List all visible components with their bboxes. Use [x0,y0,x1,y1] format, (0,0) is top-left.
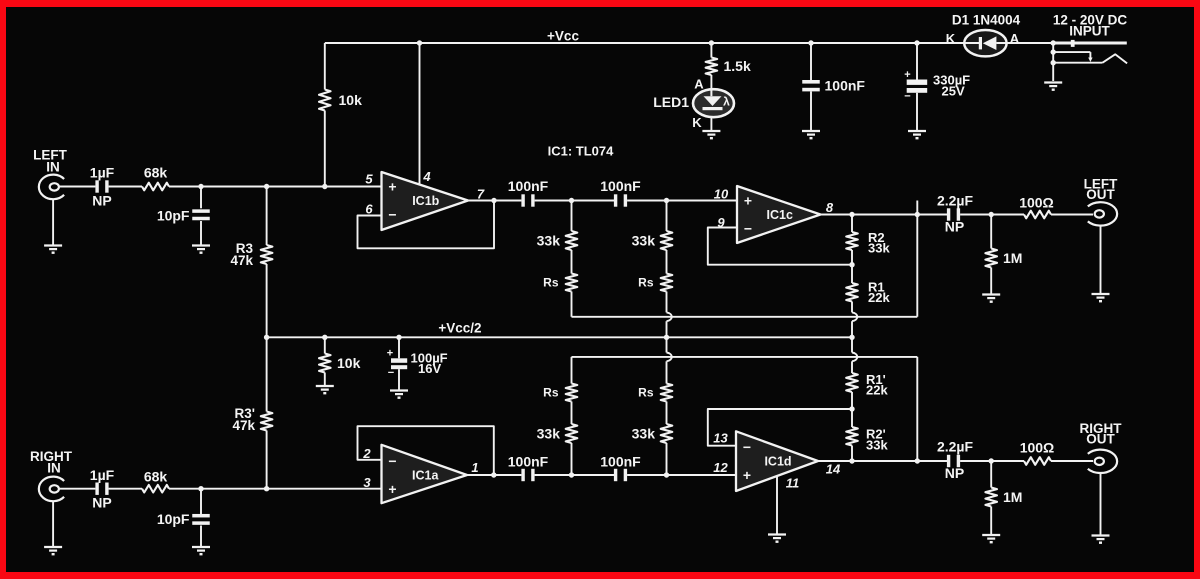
wire hop over line1 (Rcol) [852,312,857,321]
svg-text:7: 7 [477,187,485,202]
wire R2' to output [851,446,853,462]
wire R2 to R1 node [851,250,853,265]
label IN (right) [47,461,61,476]
svg-text:2.2µF: 2.2µF [937,193,974,209]
label R2' [866,427,886,442]
junction 10k bias [322,184,327,189]
pin 11 label [786,476,800,491]
label 33k (R2) [868,241,890,256]
label 100uF [411,350,448,365]
label Rs (top 1) [543,276,559,290]
wire +Vcc/2 rail [267,336,852,338]
wire 2.2uF to 100ohm [960,214,1024,216]
wire 33k-Rs column1 top [571,250,573,274]
ground under 1M top [982,295,1000,302]
svg-text:NP: NP [92,193,111,209]
label R3 [236,241,254,256]
wire LED to ground [710,117,712,131]
wire Rs-33k column1 bottom [571,402,573,425]
svg-text:NP: NP [945,465,964,481]
junction 1.5k rail [709,40,714,45]
wire LEFT IN ground [52,199,54,245]
capacitor 100nF (top 2) [614,194,627,206]
label D1 1N4004 [952,13,1021,28]
wire IC1b feedback [358,201,495,249]
svg-text:2.2µF: 2.2µF [937,439,974,455]
junction 100nF rail [808,40,813,45]
svg-text:33k: 33k [866,438,888,453]
svg-text:−: − [388,367,394,379]
wire LEFT IN to 1uF [59,186,96,188]
resistor 1M (bottom) [985,488,997,507]
label IC1: TL074 [548,144,615,159]
svg-text:100nF: 100nF [508,178,549,194]
label - 100uF [388,367,394,379]
wire +Vcc rail [325,42,1053,44]
wire RIGHT IN to 1uF [59,488,96,490]
svg-text:INPUT: INPUT [1069,24,1110,39]
label NP (right 1uF) [92,495,111,511]
wire 1.5k column [710,43,712,89]
resistor 33k (top 2) [661,231,673,250]
resistor R3' 47k [261,412,273,431]
svg-text:−: − [744,221,752,237]
wire IC1a output [467,474,521,476]
capacitor 1uF NP (right) [95,483,108,495]
label R1 [868,280,885,295]
svg-text:λ: λ [723,95,730,109]
svg-text:+Vcc: +Vcc [547,29,579,44]
svg-text:13: 13 [713,431,728,446]
label 100nF (top 2) [600,178,641,194]
svg-text:47k: 47k [230,253,253,268]
wire R1' to node [851,392,853,409]
svg-text:+: + [743,467,751,483]
svg-text:OUT: OUT [1086,187,1115,202]
svg-text:+: + [388,178,396,194]
capacitor 100nF (supply) [802,80,820,91]
wire 100ohm to LEFT OUT [1051,214,1093,216]
svg-text:100nF: 100nF [825,78,866,94]
label - 330uF [904,91,910,103]
resistor 100ohm (top) [1024,211,1051,219]
wire 33k-Rs column2 top [666,250,668,274]
junction R2/R1 [849,262,854,267]
wire hop over line3 (Rcol) [852,353,857,362]
junction filter node 2 (bottom) [664,472,669,477]
junction 1M bottom [989,458,994,463]
resistor 1M (top) [985,249,997,268]
svg-text:14: 14 [826,462,841,477]
pin 7 label [477,187,485,202]
svg-text:Rs: Rs [543,386,559,400]
wire 330uF column [916,43,918,131]
label 100nF (top 1) [508,178,549,194]
label 100ohm (top) [1019,195,1054,211]
svg-text:−: − [904,91,910,103]
wire 1M top column [990,215,992,294]
svg-text:IC1a: IC1a [412,469,439,483]
wire line3 (bottom feedback) [572,357,918,461]
wire Vcc to 10k top bias column [324,43,326,187]
resistor R2 33k [846,232,858,250]
op-amp IC1a [382,445,468,503]
label 22k (R1') [866,383,888,398]
DC jack tip contact [1053,40,1127,47]
svg-text:10pF: 10pF [157,511,190,527]
junction rail left end [264,335,269,340]
resistor R3 47k [261,245,273,264]
svg-text:IC1d: IC1d [764,455,791,469]
ground under 100uF [390,391,408,398]
label 2.2uF (bottom) [937,439,974,455]
svg-text:−: − [388,207,396,223]
ground under LEFT OUT [1092,294,1110,301]
wire 2.2uF to 100ohm (bottom) [960,460,1024,462]
svg-text:+: + [387,348,393,360]
label 1uF (left) [90,165,115,181]
junction 10pF node (right) [198,486,203,491]
svg-text:1.5k: 1.5k [724,58,751,74]
pin 4 label [422,169,431,184]
pin 14 label [826,462,841,477]
label 1uF (right) [90,467,115,483]
ground under 1M bottom [982,535,1000,542]
wire Rs column1 bottom [571,357,573,384]
svg-text:47k: 47k [232,418,255,433]
wire 33k column1 top [571,201,573,232]
wire hop over line1 (col2) [667,312,672,321]
svg-text:+: + [744,192,752,208]
svg-text:100Ω: 100Ω [1020,440,1055,456]
svg-text:+: + [388,481,396,497]
connector LEFT IN [39,175,64,200]
label 22k (R1) [868,290,890,305]
junction 1M top [989,212,994,217]
ground under 10pF (right) [192,547,210,554]
svg-text:LED1: LED1 [653,94,689,110]
wire 1uF to 68k (right) [109,488,142,490]
wire cap1 to cap2 (top) [535,200,615,202]
label 68k (right) [144,469,168,485]
wire RIGHT OUT ground [1100,473,1102,534]
wire 68k to IC1a pin3 [169,488,382,490]
svg-text:1: 1 [471,460,478,475]
svg-text:10: 10 [714,187,729,202]
label NP (bottom 2.2uF) [945,465,964,481]
wire to 10pF (left) [200,187,202,209]
svg-text:NP: NP [945,219,964,235]
resistor R2' 33k [846,427,858,446]
svg-text:33k: 33k [632,233,656,249]
svg-text:IC1: TL074: IC1: TL074 [548,144,615,159]
label 33k (top 2) [632,233,656,249]
label 2.2uF (top) [937,193,974,209]
pin 6 label [365,202,373,217]
svg-text:68k: 68k [144,165,168,181]
wire cap1 to cap2 (bottom) [535,474,615,476]
label NP (top 2.2uF) [945,219,964,235]
label Rs (bottom 2) [638,386,654,400]
svg-text:22k: 22k [866,383,888,398]
wire IC1b pin4 to Vcc [419,43,421,185]
label 100nF (bottom 1) [508,454,549,470]
junction R2 top [849,212,854,217]
wire rail to hop (col2 bottom) [666,337,668,352]
ground under 330uF [908,131,926,138]
capacitor 1uF NP (left) [95,180,108,192]
wire rail to hop (Rcol bottom) [851,337,853,352]
ground under RIGHT OUT [1092,536,1110,543]
wire 100uF column [398,337,400,390]
label 100nF (supply) [825,78,866,94]
svg-text:8: 8 [826,200,834,215]
svg-text:IC1b: IC1b [412,194,439,208]
pin 10 label [714,187,729,202]
label 33k (top 1) [537,233,561,249]
label 16V [418,361,441,376]
LED LED1 [693,89,734,117]
wire 33k to chain (col1 bottom) [571,443,573,475]
ground under DC jack [1044,83,1062,90]
ground under 100nF [802,131,820,138]
svg-text:IN: IN [47,461,61,476]
wire R3 column upper [266,187,268,246]
wire IC1a feedback [358,426,494,475]
wire DC jack to ground [1052,43,1054,81]
label 10pF (left) [157,208,190,224]
resistor 10k (divider) [319,354,331,373]
wire IC1c feedback [708,228,852,265]
wire R3' to right input [266,431,268,489]
capacitor 100uF 16V [391,358,407,369]
wire 1M bottom column [990,461,992,534]
wire R1 lead [851,265,853,283]
resistor 68k (left) [142,183,169,191]
svg-text:12: 12 [713,460,728,475]
label 33k (bottom 1) [537,426,561,442]
label +Vcc/2 [438,321,481,336]
svg-text:10pF: 10pF [157,208,190,224]
pin 2 label [362,446,371,461]
svg-text:100nF: 100nF [508,454,549,470]
wire IC1b output [468,200,521,202]
svg-text:D1 1N4004: D1 1N4004 [952,13,1021,28]
label 47k (R3) [230,253,253,268]
wire IC1d output [818,460,948,462]
label 10pF (right) [157,511,190,527]
svg-text:IC1c: IC1c [767,208,793,222]
svg-text:A: A [1010,31,1020,46]
capacitor 330uF 25V [907,80,928,93]
junction DC jack sleeve [1051,60,1056,65]
junction IC1a out [491,472,496,477]
label R2 [868,230,885,245]
label Rs (top 2) [638,276,654,290]
svg-text:1µF: 1µF [90,467,115,483]
ground under RIGHT IN [44,547,62,554]
label LED1 [653,94,689,110]
junction line3 output col bottom [915,458,920,463]
label 1M (top) [1003,250,1022,266]
label LEFT (in) [33,148,67,163]
label RIGHT (out) [1080,421,1123,436]
svg-text:33k: 33k [868,241,890,256]
connector LEFT OUT [1088,202,1117,225]
label 12 - 20V DC [1053,13,1128,28]
wire LEFT OUT ground [1100,226,1102,293]
wire 33k to chain (col2 bottom) [666,443,668,475]
wire hop to rail (col2) [666,321,668,337]
svg-text:+Vcc/2: +Vcc/2 [438,321,481,336]
resistor Rs (top 2) [661,274,673,292]
capacitor 100nF (bottom 1) [521,469,534,481]
junction 10k bottom rail [322,335,327,340]
label LEFT (out) [1084,177,1118,192]
wire cap2 to IC1c pin10 [627,200,737,202]
svg-text:68k: 68k [144,469,168,485]
capacitor 10pF (left) [192,209,210,220]
label R3' [235,406,255,421]
capacitor 100nF (top 1) [521,194,534,206]
label NP (left 1uF) [92,193,111,209]
svg-text:K: K [946,31,956,46]
junction DC jack middle [1051,49,1056,54]
svg-text:25V: 25V [942,83,965,98]
resistor 33k (top 1) [566,231,578,250]
wire 33k column2 top [666,201,668,232]
label 10k [339,92,363,108]
junction filter node 1 (bottom) [569,472,574,477]
label RIGHT (in) [30,449,73,464]
wire Rs-33k column2 bottom [666,402,668,425]
resistor 33k (bottom 1) [566,424,578,443]
wire cap2 to IC1d pin12 [627,474,736,476]
pin 5 label [365,172,373,187]
junction 100uF rail [396,335,401,340]
wire 10pF to ground (left) [200,221,202,245]
wire R1 to hop [851,302,853,313]
svg-text:1M: 1M [1003,489,1022,505]
svg-text:22k: 22k [868,290,890,305]
label Rs (bottom 1) [543,386,559,400]
svg-text:A: A [694,77,704,92]
svg-text:11: 11 [786,476,800,491]
wire hop to R1' [851,361,853,373]
wire 1uF to 68k [109,186,142,188]
svg-text:5: 5 [365,172,373,187]
junction filter node 1 (top) [569,198,574,203]
resistor Rs (top 1) [566,274,578,292]
wire line3 to IC1d out [916,460,918,462]
connector RIGHT IN [39,477,64,502]
svg-text:+: + [904,69,910,81]
wire 100ohm to RIGHT OUT [1051,460,1093,462]
capacitor 2.2uF NP (top) [947,208,960,220]
wire hop to rail (Rcol) [851,321,853,337]
label 330uF [933,73,970,88]
pin 1 label [471,460,478,475]
junction Rcol rail [849,335,854,340]
ground under 10k [316,386,334,393]
svg-text:1µF: 1µF [90,165,115,181]
svg-text:K: K [692,115,702,130]
label 47k (R3') [232,418,255,433]
capacitor 2.2uF NP (bottom) [947,455,960,467]
label OUT (right) [1086,432,1115,447]
wire RIGHT IN ground [52,501,54,546]
svg-text:1M: 1M [1003,250,1022,266]
svg-text:10k: 10k [337,355,361,371]
capacitor 10pF (right) [192,514,210,525]
resistor 68k (right) [142,485,169,493]
label + 330uF [904,69,910,81]
resistor 1.5k [706,58,718,76]
resistor R1 22k [846,283,858,302]
diode D1 [964,30,1006,56]
label 1.5k [724,58,751,74]
ground under LEFT IN [44,246,62,253]
wire line1 (top feedback) [572,201,918,317]
svg-text:Rs: Rs [543,276,559,290]
wire 10pF to ground (right) [200,526,202,547]
wire R2' lead [851,409,853,427]
svg-text:33k: 33k [537,426,561,442]
svg-text:−: − [388,453,396,469]
capacitor 100nF (bottom 2) [614,469,627,481]
junction pin4 rail [417,40,422,45]
wire R2 lead [851,215,853,233]
wire R3' column upper [266,337,268,411]
label 100ohm (bottom) [1020,440,1055,456]
wire 100nF power column [810,43,812,131]
resistor R1' 22k [846,373,858,392]
label INPUT [1069,24,1110,39]
svg-text:33k: 33k [632,426,656,442]
wire 68k to IC1b pin5 [169,186,382,188]
wire IC1c output [821,214,949,216]
label R1' [866,372,886,387]
svg-text:2: 2 [362,446,371,461]
pin 3 label [363,475,371,490]
svg-text:OUT: OUT [1086,432,1115,447]
wire Rs to hop column2 [666,292,668,313]
ground under LED1 [702,131,720,138]
resistor 100ohm (bottom) [1024,457,1051,465]
junction 330uF rail [914,40,919,45]
junction R3' bottom [264,486,269,491]
pin 13 label [713,431,728,446]
svg-text:33k: 33k [537,233,561,249]
wire hop over line3 (col2) [667,353,672,362]
label A (D1) [1010,31,1020,46]
label OUT (left) [1086,187,1115,202]
junction line1 output col [915,212,920,217]
node +Vcc label [547,29,579,44]
op-amp IC1b [382,172,469,230]
svg-text:NP: NP [92,495,111,511]
wire 10k bottom column [324,337,326,385]
junction R3 top [264,184,269,189]
svg-text:100nF: 100nF [600,178,641,194]
ground under pin11 [768,535,786,542]
junction 10pF node (left) [198,184,203,189]
label 100nF (bottom 2) [600,454,641,470]
resistor Rs (bottom 2) [661,384,673,402]
resistor 33k (bottom 2) [661,424,673,443]
DC jack sleeve lever [1053,54,1127,63]
label A (LED anode) [694,77,704,92]
